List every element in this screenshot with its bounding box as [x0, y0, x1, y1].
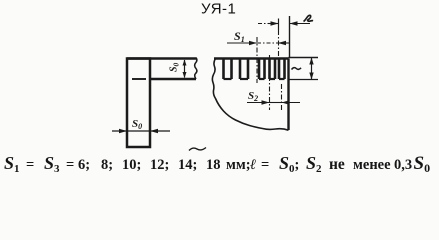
svg-text:мм;: мм; [226, 157, 251, 173]
bottom dimension S0 line [112, 130, 170, 132]
svg-text:=: = [26, 157, 34, 173]
plate broken outline (left + bottom wavy) [212, 59, 288, 131]
svg-text:S1: S1 [234, 29, 245, 44]
svg-text:S0: S0 [169, 62, 181, 72]
horizontal sheet top edge [127, 57, 196, 60]
tooth edges (vertical strokes) [224, 59, 285, 80]
svg-text:S2: S2 [248, 90, 258, 103]
horizontal sheet bottom edge [150, 78, 196, 81]
extension tick x=278.5 [278, 19, 280, 31]
svg-text:S0: S0 [414, 153, 431, 175]
svg-text:12;: 12; [150, 157, 169, 173]
svg-text:=: = [66, 157, 74, 173]
dimension row B (S1) [227, 42, 257, 44]
svg-text:14;: 14; [178, 157, 197, 173]
svg-text:0,3: 0,3 [394, 157, 412, 173]
caption text [4, 153, 430, 175]
vertical sheet (left figure) [127, 59, 150, 148]
svg-text:S1: S1 [4, 153, 20, 175]
svg-text:УЯ-1: УЯ-1 [201, 1, 236, 18]
centerline x=269.5 [269, 55, 271, 110]
dimension row A (top) [258, 23, 279, 25]
plate right edge [287, 59, 289, 131]
svg-text:10;: 10; [122, 157, 141, 173]
joint line dash inside vertical sheet [132, 78, 146, 80]
svg-text:ℓ: ℓ [250, 157, 256, 173]
rotated l label (tilde mark) [292, 68, 302, 70]
arrowhead right pointing left [150, 129, 158, 133]
svg-text:8;: 8; [101, 157, 113, 173]
svg-text:S0: S0 [132, 118, 142, 131]
svg-text:S3: S3 [44, 153, 60, 175]
thickness arrow (vertical, both heads) [184, 60, 186, 78]
centerline x=281.5 [281, 84, 283, 110]
bottom line extension right [289, 79, 319, 81]
horizontal sheet broken end [195, 58, 197, 80]
svg-text:=: = [261, 157, 269, 173]
arrowhead left pointing right [119, 129, 127, 133]
squiggle artifact above 18 [189, 148, 206, 151]
comb plate: teeth top line [214, 57, 289, 60]
top line extension to right [289, 57, 319, 59]
svg-text:менее: менее [353, 157, 391, 173]
extension line x=289.5 tall [289, 16, 291, 57]
slot bottoms [224, 78, 285, 80]
l vertical dimension arrow [311, 58, 313, 79]
svg-text:6;: 6; [78, 157, 90, 173]
svg-text:S2: S2 [306, 153, 322, 175]
svg-text:не: не [329, 156, 345, 173]
svg-text:S0;: S0; [279, 153, 299, 175]
label l (top right) [304, 15, 314, 21]
dimension S2 (below) [247, 102, 270, 104]
centerline x=257 [256, 37, 258, 83]
svg-text:18: 18 [206, 157, 221, 173]
